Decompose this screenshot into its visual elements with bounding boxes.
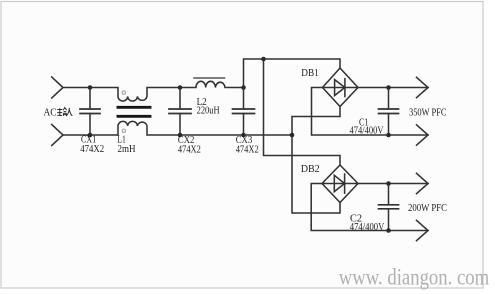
svg-text:474X2: 474X2 (236, 145, 259, 156)
svg-text:DB2: DB2 (301, 163, 320, 175)
svg-text:220uH: 220uH (197, 106, 220, 117)
svg-text:474X2: 474X2 (178, 145, 201, 156)
svg-text:200W PFC: 200W PFC (408, 203, 447, 214)
svg-text:474X2: 474X2 (80, 144, 104, 155)
svg-text:350W PFC: 350W PFC (409, 107, 447, 118)
svg-text:474/400V: 474/400V (350, 222, 385, 233)
svg-text:www. diangon. com: www. diangon. com (339, 264, 490, 290)
svg-text:2mH: 2mH (118, 144, 136, 155)
svg-text:474/400V: 474/400V (350, 126, 384, 137)
svg-text:AC: AC (44, 108, 57, 119)
svg-text:DB1: DB1 (301, 67, 319, 79)
